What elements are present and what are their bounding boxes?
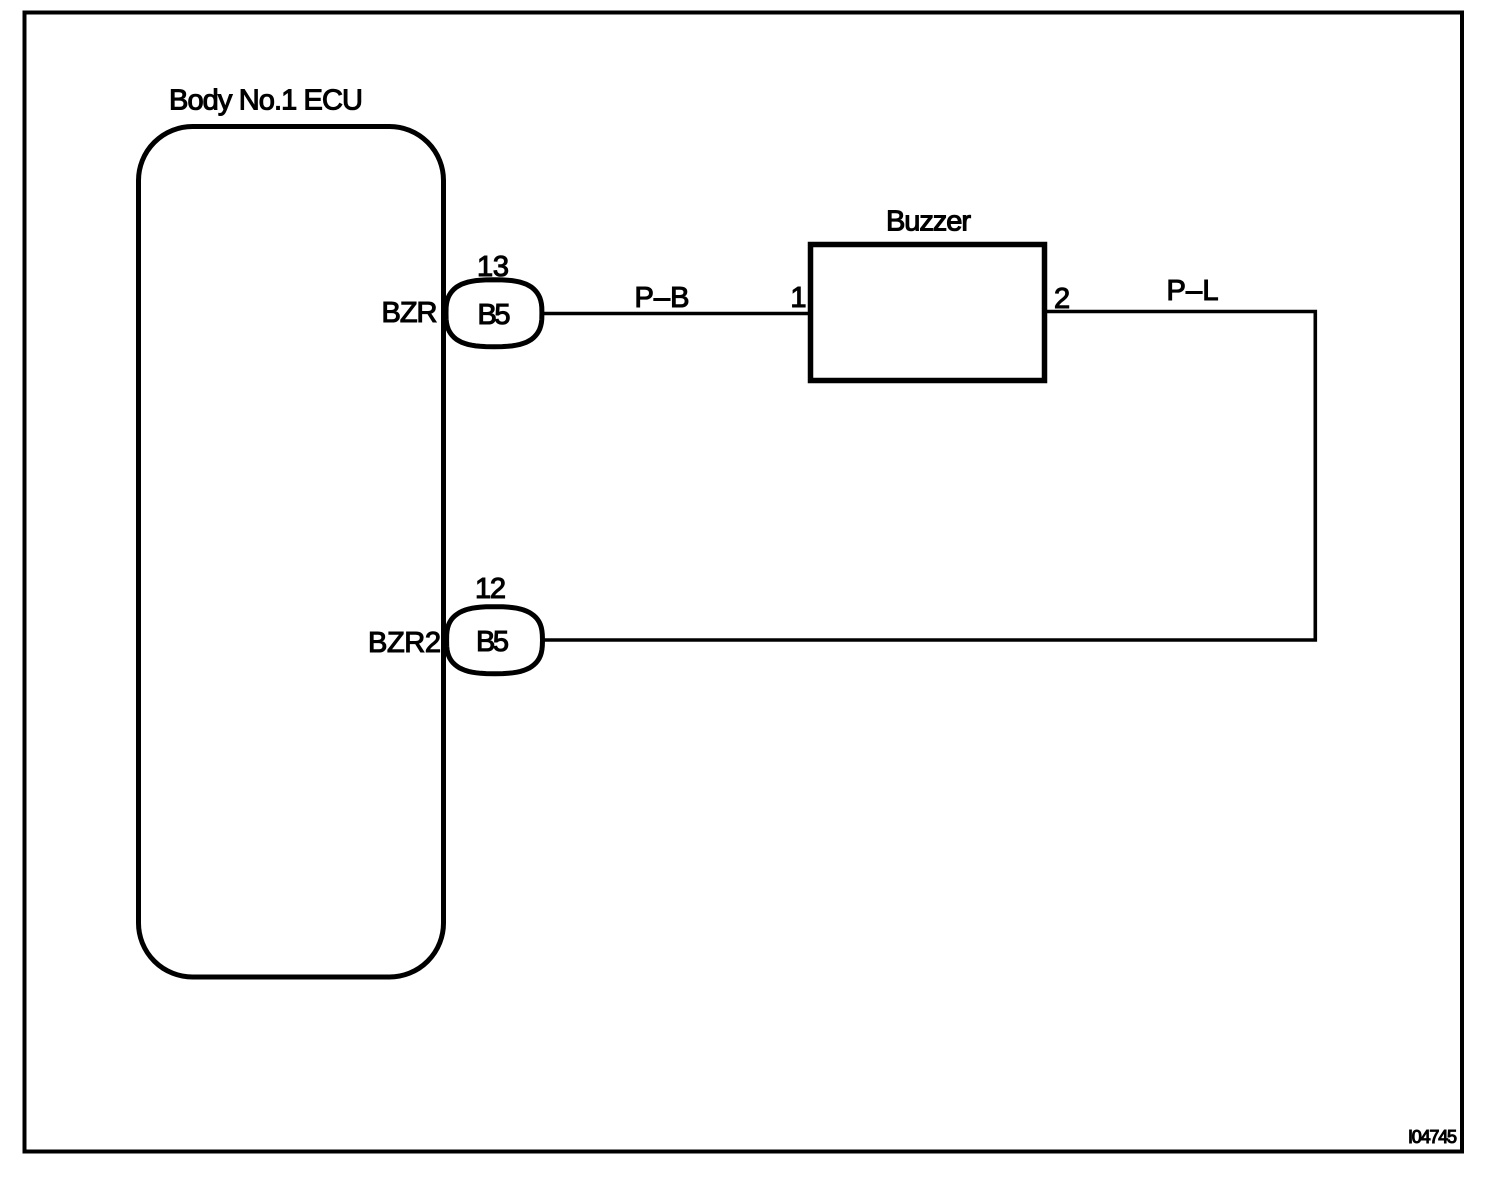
- svg-text:12: 12: [475, 573, 506, 605]
- svg-text:BZR: BZR: [382, 297, 438, 329]
- svg-text:13: 13: [477, 251, 509, 283]
- svg-text:Buzzer: Buzzer: [886, 206, 971, 238]
- svg-text:P–L: P–L: [1167, 275, 1219, 307]
- svg-text:I04745: I04745: [1408, 1127, 1457, 1147]
- svg-text:1: 1: [790, 282, 806, 314]
- svg-text:BZR2: BZR2: [368, 627, 441, 659]
- svg-text:2: 2: [1054, 283, 1070, 315]
- svg-text:B5: B5: [476, 626, 509, 658]
- svg-text:Body No.1 ECU: Body No.1 ECU: [169, 85, 363, 117]
- svg-text:B5: B5: [478, 299, 511, 331]
- svg-text:P–B: P–B: [635, 282, 690, 314]
